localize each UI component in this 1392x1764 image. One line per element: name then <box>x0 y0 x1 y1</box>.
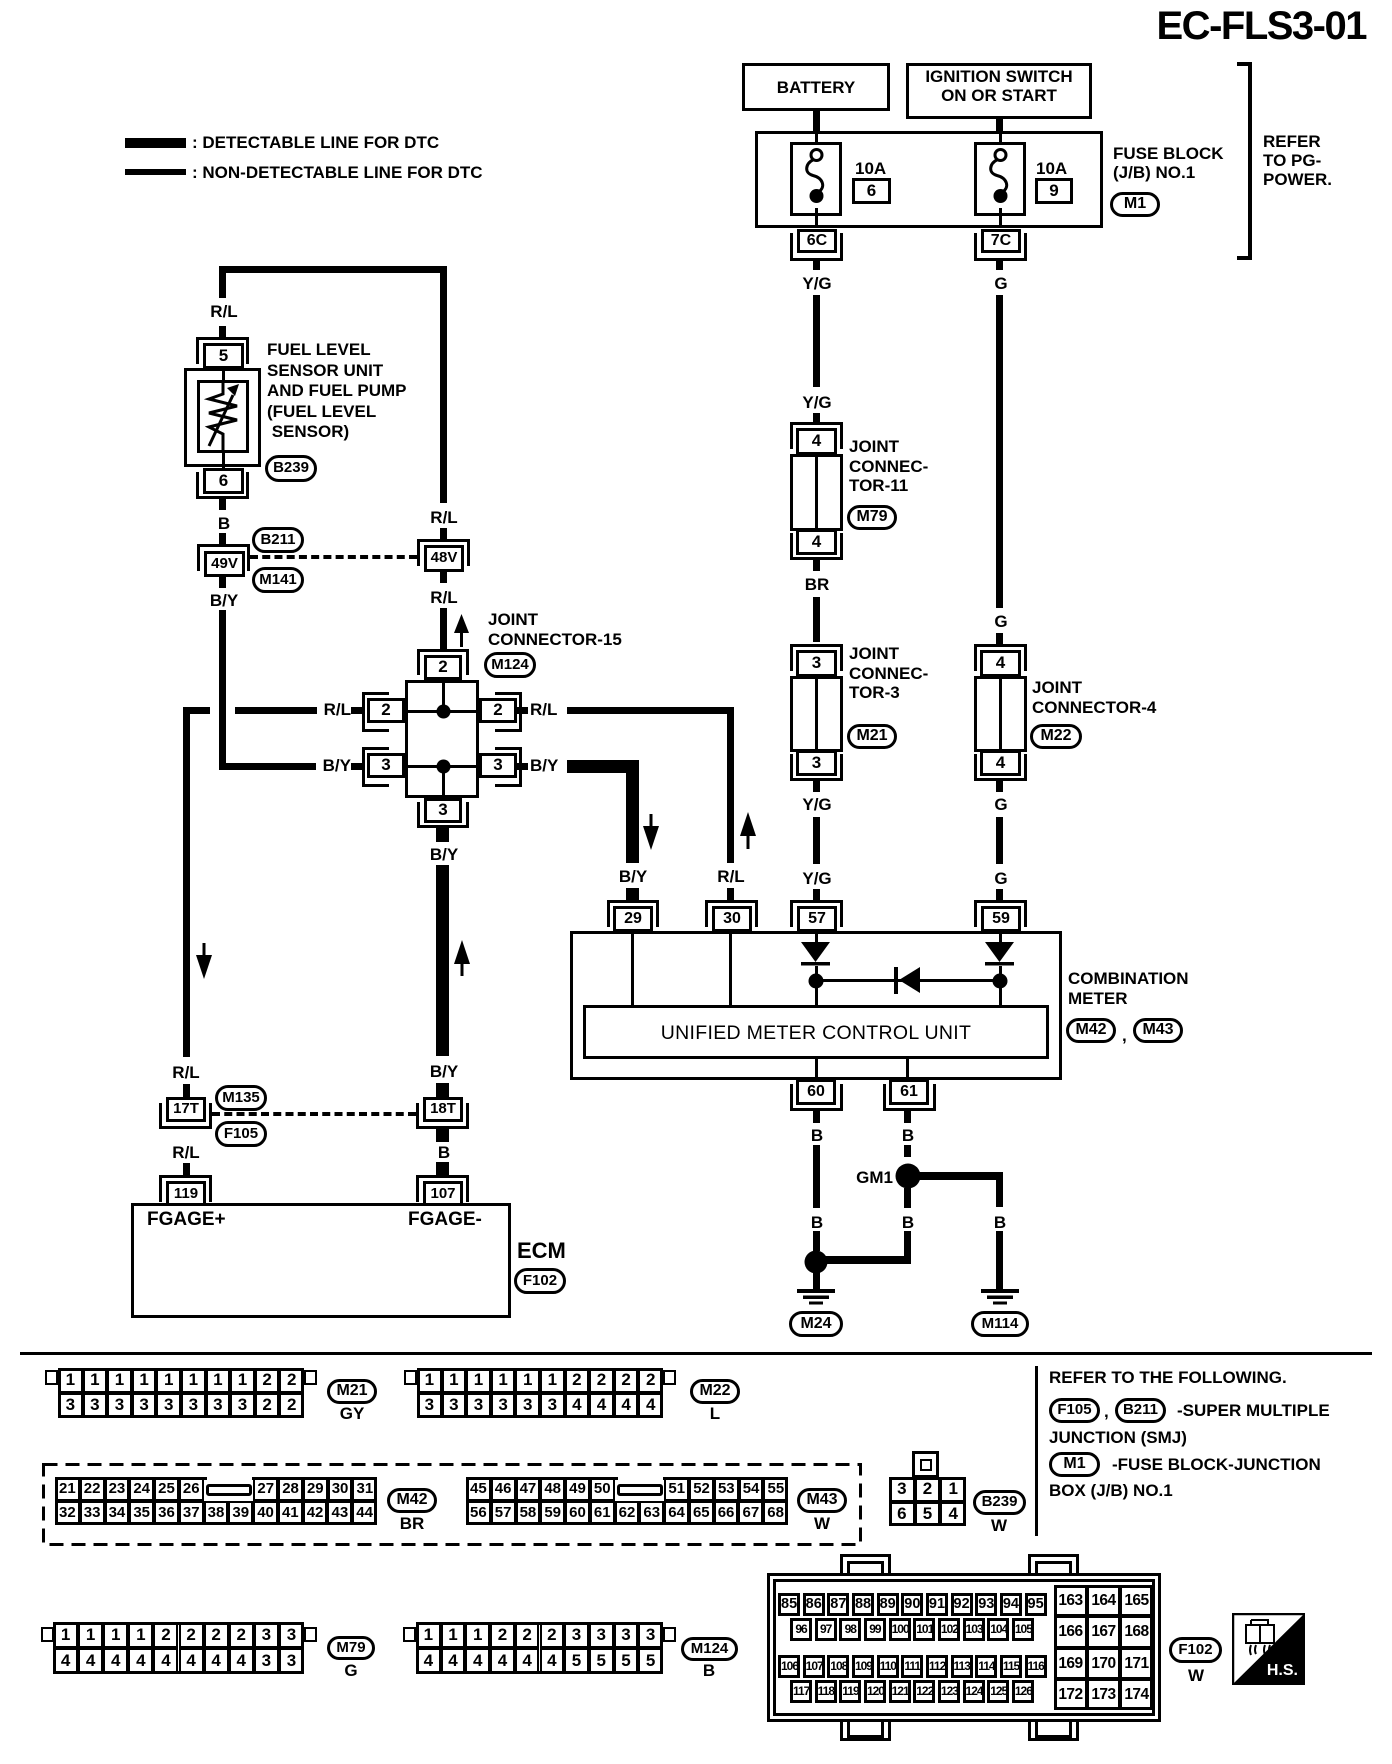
M79 right tab <box>304 1627 317 1642</box>
connector id M22 oval <box>1030 724 1082 749</box>
meter internal line from 30 <box>729 931 732 1007</box>
joint connector-3 pin 3 top <box>796 650 837 677</box>
wire B 61 stub <box>904 1111 911 1123</box>
joint connector-4 bottom bracket <box>974 754 1027 781</box>
wire B/Y left nub <box>351 763 362 770</box>
joint connector-3 pin 3 bottom <box>796 750 837 776</box>
ignition switch text <box>925 67 1072 105</box>
F102 cells row 96-105 <box>789 1618 791 1641</box>
JC15 pin 3 left box <box>367 753 405 778</box>
connector id F102 oval <box>514 1268 566 1294</box>
connector id M79 legend <box>327 1636 375 1660</box>
wire G JC4 to 59 <box>996 817 1003 864</box>
connector id M21 legend <box>327 1379 377 1404</box>
M22 right tab <box>663 1370 676 1385</box>
M124 right tab <box>663 1627 676 1642</box>
battery text <box>777 78 855 98</box>
wire color R/L above 30 <box>717 867 744 887</box>
connector id M124 oval <box>484 652 536 678</box>
wire Y/G stub to JC11 <box>813 413 820 423</box>
B239 cells row2 <box>888 1502 890 1527</box>
connector id M1 <box>1110 192 1160 217</box>
joint connector-11 body <box>790 454 843 531</box>
fuel level sensor label <box>267 340 406 443</box>
F102 cells row 166-168 <box>1053 1616 1055 1647</box>
wire fuse 9 to 7C <box>999 208 1002 228</box>
joint connector-3 bottom bracket <box>790 754 843 781</box>
wire 49V stub below <box>219 577 226 588</box>
M22 color L <box>710 1404 720 1424</box>
dashed box around M42 M43 <box>42 1463 862 1546</box>
M21 right tab <box>304 1370 317 1385</box>
wire color B/Y above 18T <box>430 1062 458 1082</box>
JC15 inner line row R/L <box>408 710 476 713</box>
F102 color W <box>1188 1666 1204 1686</box>
connector id M42 oval <box>1066 1018 1116 1043</box>
M43 latch <box>617 1484 663 1496</box>
wire R/L left segment <box>235 707 317 714</box>
SMJ dashed line 49V to 48V <box>250 555 417 559</box>
F102 cells row 163-165 <box>1053 1585 1055 1616</box>
JC15 pin 2 left box <box>367 698 405 723</box>
joint connector-15 label <box>488 610 622 649</box>
JC15 pin 3 right bracket <box>495 747 522 787</box>
wire sensor 6 stub <box>219 499 226 510</box>
joint connector-11 pin 4 top <box>796 428 837 455</box>
wire color B/Y left of JC15 <box>323 756 351 776</box>
wire left vertical to sensor <box>219 266 226 298</box>
wire battery to fuse block <box>813 108 820 133</box>
F102 top tab right inner <box>1035 1561 1072 1579</box>
sensor wire pin5 to resistor <box>222 366 225 382</box>
connector 57 bracket <box>790 900 843 927</box>
wire JC11 stub below <box>813 560 820 571</box>
pg bracket vertical <box>1248 62 1252 260</box>
wire BR JC11 to JC3 <box>813 597 820 642</box>
fuse 10A-6 box <box>790 142 842 216</box>
JC15 pin 3 left bracket <box>362 747 389 787</box>
joint connector-3 body <box>790 676 843 752</box>
F102 top tab left inner <box>847 1561 884 1579</box>
wire G stub to 59 <box>996 889 1003 900</box>
sensor pin 6 bracket <box>196 472 249 499</box>
JC15 pin 2 top box <box>424 655 462 680</box>
wire into fuse 10A-6 <box>815 131 818 150</box>
M43 color W <box>814 1514 830 1534</box>
wire B/Y right vertical <box>626 760 639 863</box>
connector id F102 legend <box>1169 1637 1222 1663</box>
JC15 junction dot R/L <box>436 704 451 719</box>
wire B right vertical upper <box>996 1172 1003 1207</box>
diode from 59 <box>984 941 1015 968</box>
M22 cells row1 <box>416 1368 418 1393</box>
connector id M124 legend <box>681 1637 738 1661</box>
wire B right vertical lower <box>996 1231 1003 1291</box>
connector id M135 <box>215 1085 267 1111</box>
wire R/L corner nub <box>183 707 210 714</box>
wire color R/L sensor top <box>210 302 237 322</box>
B239 color W <box>991 1516 1007 1536</box>
M42 color BR <box>400 1514 425 1534</box>
arrow up into JC15 <box>454 614 469 647</box>
joint connector-3 top bracket <box>790 644 843 671</box>
sensor pin 5 box <box>203 343 244 369</box>
fuse block label line1 <box>1113 144 1224 164</box>
connector 60 bracket <box>790 1084 843 1111</box>
arrow up on B/Y to JC15 <box>454 940 470 976</box>
joint connector-4 top bracket <box>974 644 1027 671</box>
reference smj text2 <box>1049 1428 1187 1448</box>
reference B211 oval <box>1115 1398 1166 1423</box>
connector id M22 legend <box>690 1379 740 1404</box>
F102 bottom tab left inner <box>847 1720 884 1738</box>
reference comma <box>1104 1402 1109 1422</box>
wire R/L left vertical <box>183 707 190 1057</box>
wire G stub to JC4 <box>996 633 1003 644</box>
ground id M24 oval <box>789 1311 843 1337</box>
F102 cells row 106-116 <box>777 1655 779 1678</box>
wire top horizontal R/L <box>219 266 447 273</box>
F102 connector inner box <box>773 1579 1155 1716</box>
connector 49V bracket <box>197 544 250 571</box>
connector 17T bracket <box>159 1103 212 1129</box>
reference fuse block text2 <box>1049 1481 1173 1501</box>
wire R/L right vertical <box>727 707 734 863</box>
wire B/Y corner to JC15 <box>219 766 226 770</box>
node GM1 <box>895 1163 921 1189</box>
JC15 pin 2 right bracket <box>495 692 522 732</box>
meter internal line from 29 <box>631 931 634 1007</box>
connector 17T box <box>166 1097 206 1122</box>
connector 61 box <box>889 1079 929 1105</box>
ground symbol M114 <box>981 1289 1019 1306</box>
B239 cells row1 <box>888 1477 890 1502</box>
joint connector-4 body <box>974 676 1027 752</box>
connector 6C <box>797 229 837 253</box>
connector 30 box <box>712 906 752 932</box>
connector 119 box <box>166 1181 206 1207</box>
wire B stub to 107 <box>436 1162 449 1176</box>
battery box <box>742 63 890 111</box>
connector 107 bracket <box>416 1175 469 1202</box>
M124 cells row1 <box>415 1622 417 1648</box>
connector 48V box <box>424 545 464 572</box>
connector 60 box <box>796 1079 836 1105</box>
F102 bottom tab right <box>1028 1716 1079 1741</box>
connector 29 box <box>613 906 653 932</box>
fuse 10A-9 element <box>987 146 1015 208</box>
wire stub to 48V <box>440 528 447 539</box>
JC15 pin 2 left bracket <box>362 692 389 732</box>
fuel level sensor inner box <box>197 380 249 453</box>
wire B 60 lower segment <box>813 1231 820 1251</box>
reference M1 oval <box>1049 1452 1100 1477</box>
F102 bottom tab left <box>840 1716 891 1741</box>
joint connector-11 pin 4 bottom <box>796 529 837 555</box>
connector 30 bracket <box>705 900 758 927</box>
F102 top tab right <box>1028 1554 1079 1579</box>
connector id B239 oval <box>265 455 317 482</box>
wire B GM1 down segment <box>904 1188 911 1208</box>
ECM pin FGAGE- label <box>408 1209 482 1231</box>
H.S. view marker <box>1232 1613 1305 1685</box>
M42 latch <box>206 1484 252 1496</box>
diode from 57 <box>800 941 831 968</box>
B239 latch <box>912 1451 939 1478</box>
JC15 pin 3 bottom box <box>424 798 462 823</box>
M42 cells row1 left <box>54 1477 56 1501</box>
F102 connector outer box <box>767 1573 1161 1722</box>
reference fuse block text1 <box>1112 1455 1321 1475</box>
wire B to 49V <box>219 533 226 544</box>
wire color R/L right of JC15 <box>530 700 557 720</box>
M79 color G <box>344 1661 357 1681</box>
wire Y/G JC3 to 57 <box>813 817 820 864</box>
JC15 pin 2 right box <box>479 698 517 723</box>
F102 bottom tab right inner <box>1035 1720 1072 1738</box>
fuse 10A-6 element <box>803 146 831 208</box>
connector 18T bracket <box>416 1103 469 1129</box>
joint connector-4 label <box>1032 678 1156 717</box>
joint connector-4 pin 4 bottom <box>980 750 1021 776</box>
M43 connector outline <box>466 1477 788 1525</box>
arrow down on R/L to ECM <box>196 943 212 979</box>
wire color B below GM1 <box>902 1213 914 1233</box>
wire color Y/G 4 <box>802 869 831 889</box>
wire color G 2 <box>994 612 1007 632</box>
svg-text:H.S.: H.S. <box>1267 1662 1298 1679</box>
F102 cells row 117-126 <box>789 1680 791 1703</box>
wire 7C stub <box>996 261 1003 270</box>
connector 29 bracket <box>607 900 659 927</box>
wire B 60 segment <box>813 1145 820 1208</box>
wire ignition to fuse block <box>996 116 1003 133</box>
connector 107 box <box>423 1181 463 1207</box>
wire color B below 61 <box>902 1126 914 1146</box>
M21 cells row2 <box>57 1393 59 1418</box>
connector id B239 legend <box>973 1490 1026 1515</box>
wire color B/Y right of JC15 <box>530 756 558 776</box>
wire B/Y stub below JC15 <box>436 828 449 842</box>
wire color G 3 <box>994 795 1007 815</box>
wire R/L stub to 119 <box>183 1163 190 1176</box>
connector 59 bracket <box>974 900 1027 927</box>
wire R/L right segment <box>567 707 734 714</box>
combination meter label <box>1068 969 1189 1008</box>
M43 latch notch <box>618 1477 663 1480</box>
connector 59 box <box>981 906 1021 932</box>
meter horizontal line between dots <box>816 979 1001 982</box>
wire color BR <box>805 575 830 595</box>
F102 top tab left <box>840 1554 891 1579</box>
meter line 57 dot to UMCU <box>815 986 818 1007</box>
JC15 pin 3 bottom bracket <box>417 802 469 828</box>
M22 connector outline <box>417 1368 663 1418</box>
connector 49V box <box>204 551 245 577</box>
M124 cells row2 <box>415 1648 417 1674</box>
fuse 2 number 9 <box>1035 178 1073 204</box>
connector 6C bracket <box>790 233 843 261</box>
ECM box <box>131 1203 511 1318</box>
wire B GM1 to corner <box>904 1231 911 1264</box>
wire B 61 segment <box>904 1145 911 1157</box>
comma between M42 M43 <box>1122 1026 1127 1046</box>
wire right vertical R/L <box>440 266 447 503</box>
arrow up on R/L to 30 <box>740 812 756 849</box>
connector id F105 smj <box>215 1121 267 1147</box>
M21 connector outline <box>58 1368 304 1418</box>
wire Y/G 6C to JC11 <box>813 295 820 387</box>
fuse block label line2 <box>1113 163 1195 183</box>
SMJ dashed line 17T to 18T <box>212 1112 416 1116</box>
M124 connector outline <box>416 1622 663 1674</box>
M43 cells row1 right <box>663 1477 665 1501</box>
joint connector-4 pin 4 top <box>980 650 1021 677</box>
connector id M79 <box>847 505 897 530</box>
wire fuse 6 to 6C <box>815 208 818 228</box>
wire B dot to ground M24 <box>813 1272 820 1289</box>
junction node above M24 <box>804 1250 828 1274</box>
unified meter control unit box <box>583 1005 1049 1059</box>
wire color B below 60 <box>811 1126 823 1146</box>
JC15 inner line row B/Y <box>408 765 476 768</box>
wire B corner to M24 junction <box>824 1256 911 1264</box>
legend non-detectable text <box>192 163 483 183</box>
fuse 1 number 6 <box>852 178 891 204</box>
arrow down on B/Y to 29 <box>643 814 659 850</box>
M42 cells row2 <box>54 1501 56 1525</box>
connector id M42 legend <box>387 1488 437 1513</box>
ECM pin FGAGE+ label <box>147 1209 226 1231</box>
reference F105 oval <box>1049 1398 1100 1423</box>
M21 color GY <box>340 1404 365 1424</box>
connector id M21 oval <box>847 724 897 749</box>
wire B/Y stub to 18T <box>436 1083 449 1099</box>
wire 6C stub <box>813 261 820 270</box>
connector 18T box <box>423 1097 463 1122</box>
M124 left tab <box>403 1627 416 1642</box>
meter junction dot 57 <box>808 973 824 989</box>
M79 left tab <box>41 1627 54 1642</box>
joint connector-11 top bracket <box>790 422 843 449</box>
JC15 junction dot B/Y <box>436 759 451 774</box>
B239 connector outline <box>889 1477 966 1526</box>
connector id M141 <box>252 567 304 593</box>
connector 119 bracket <box>159 1175 212 1202</box>
M22 left tab <box>404 1370 417 1385</box>
wire color G 4 <box>994 869 1007 889</box>
F102 grid outline <box>1054 1585 1153 1710</box>
wire into fuse 10A-9 <box>999 131 1002 150</box>
M124 color B <box>703 1661 715 1681</box>
sensor pin 6 box <box>203 468 244 494</box>
wire R/L 48V to JC15 <box>440 608 447 649</box>
ground symbol M24 <box>797 1289 835 1306</box>
JC15 pin 2 top bracket <box>417 649 469 675</box>
joint connector-3 center line <box>815 679 818 749</box>
connector id M43 legend <box>797 1488 847 1513</box>
meter line 59 dot to UMCU <box>999 986 1002 1007</box>
meter internal line from 57 <box>815 931 818 943</box>
connector 48V bracket <box>417 539 470 566</box>
F102 cells row 169-171 <box>1053 1648 1055 1679</box>
wire JC4 stub below <box>996 781 1003 792</box>
wire Y/G stub to 57 <box>813 889 820 900</box>
title EC-FLS3-01 <box>1157 4 1367 49</box>
wire color R/L below 17T <box>172 1143 199 1163</box>
M43 cells row2 <box>465 1501 467 1525</box>
sensor wire resistor to pin6 <box>222 451 225 469</box>
refer following text <box>1049 1368 1287 1388</box>
combination meter box <box>570 931 1062 1080</box>
pg bracket top <box>1237 62 1252 66</box>
connector id B211 <box>252 527 304 553</box>
ECM label <box>517 1238 566 1264</box>
wire color Y/G 1 <box>802 274 831 294</box>
F102 cells row 172-174 <box>1053 1679 1055 1710</box>
meter internal line to 60 <box>815 1059 818 1079</box>
unified meter control unit text <box>661 1022 971 1045</box>
wire color Y/G 2 <box>802 393 831 413</box>
separator line <box>20 1352 1372 1355</box>
node GM1 label <box>856 1168 893 1188</box>
wire B/Y left segment <box>219 763 316 770</box>
wire color B/Y 49V <box>210 591 238 611</box>
wire G 7C to JC4 <box>996 295 1003 608</box>
wire R/L stub to 17T <box>183 1084 190 1097</box>
legend detectable line sample <box>125 138 186 148</box>
connector 7C bracket <box>974 233 1027 261</box>
wire color B sensor <box>218 514 230 534</box>
wire R/L stub to 30 <box>727 888 734 900</box>
wire R/L right nub <box>517 707 528 714</box>
fuse 1 rating 10A <box>855 159 886 179</box>
ignition switch box <box>906 63 1092 119</box>
JC15 inner line bottom <box>442 768 445 795</box>
joint connector-11 label <box>849 437 928 496</box>
wire B/Y JC15 to 18T <box>436 865 449 1056</box>
M22 cells row2 <box>416 1393 418 1418</box>
joint connector-3 label <box>849 644 928 703</box>
meter internal line from 59 <box>999 931 1002 943</box>
wire color B right branch <box>994 1213 1006 1233</box>
JC15 pin 3 right box <box>479 753 517 778</box>
M42 latch notch <box>207 1477 252 1480</box>
connector 57 box <box>797 906 837 932</box>
connector 61 bracket <box>883 1084 936 1111</box>
wire B/Y 18T stub below <box>436 1129 449 1142</box>
fuel level sensor resistor <box>203 382 243 451</box>
legend non-detectable line sample <box>125 169 186 175</box>
wire color B/Y below JC15 <box>430 845 458 865</box>
fuel level sensor unit box <box>184 368 261 467</box>
meter internal line to 61 <box>906 1059 909 1079</box>
JC15 inner line top <box>442 683 445 711</box>
wire R/L left nub <box>351 707 362 714</box>
wire color R/L left of JC15 <box>324 700 351 720</box>
fuse block J/B box <box>755 131 1103 228</box>
diode between 57 and 59 <box>893 966 922 995</box>
wire color Y/G 3 <box>802 795 831 815</box>
M79 cells row2 <box>52 1648 54 1674</box>
reference smj text1 <box>1177 1401 1330 1421</box>
wire color G 1 <box>994 274 1007 294</box>
connector id M43 oval <box>1133 1018 1183 1043</box>
reference divider line <box>1035 1366 1038 1536</box>
M42 cells row1 right <box>252 1477 254 1501</box>
wire B/Y stub to 29 <box>626 888 639 900</box>
M21 left tab <box>45 1370 58 1385</box>
